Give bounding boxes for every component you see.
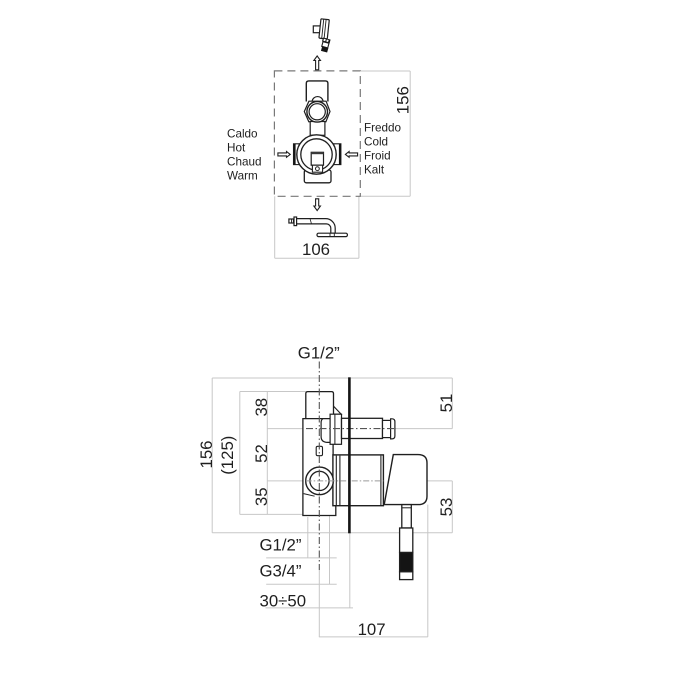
svg-text:Chaud: Chaud bbox=[227, 156, 261, 169]
svg-text:G1/2”: G1/2” bbox=[260, 535, 302, 554]
svg-text:156: 156 bbox=[197, 441, 216, 469]
svg-text:Hot: Hot bbox=[227, 142, 246, 155]
svg-text:Froid: Froid bbox=[364, 150, 391, 163]
svg-text:Freddo: Freddo bbox=[364, 122, 402, 135]
svg-text:Kalt: Kalt bbox=[364, 164, 385, 177]
svg-text:G3/4”: G3/4” bbox=[260, 561, 302, 580]
svg-text:Caldo: Caldo bbox=[227, 128, 258, 141]
svg-text:52: 52 bbox=[252, 444, 271, 463]
svg-text:156: 156 bbox=[394, 86, 413, 114]
svg-text:38: 38 bbox=[252, 398, 271, 417]
svg-text:107: 107 bbox=[358, 620, 386, 639]
svg-text:35: 35 bbox=[252, 487, 271, 506]
svg-text:Warm: Warm bbox=[227, 170, 258, 183]
svg-text:51: 51 bbox=[437, 394, 456, 413]
svg-text:G1/2”: G1/2” bbox=[298, 343, 340, 362]
svg-text:106: 106 bbox=[302, 240, 330, 259]
svg-text:Cold: Cold bbox=[364, 136, 388, 149]
svg-text:30÷50: 30÷50 bbox=[260, 591, 307, 610]
svg-text:(125): (125) bbox=[218, 436, 237, 475]
svg-text:53: 53 bbox=[437, 498, 456, 517]
